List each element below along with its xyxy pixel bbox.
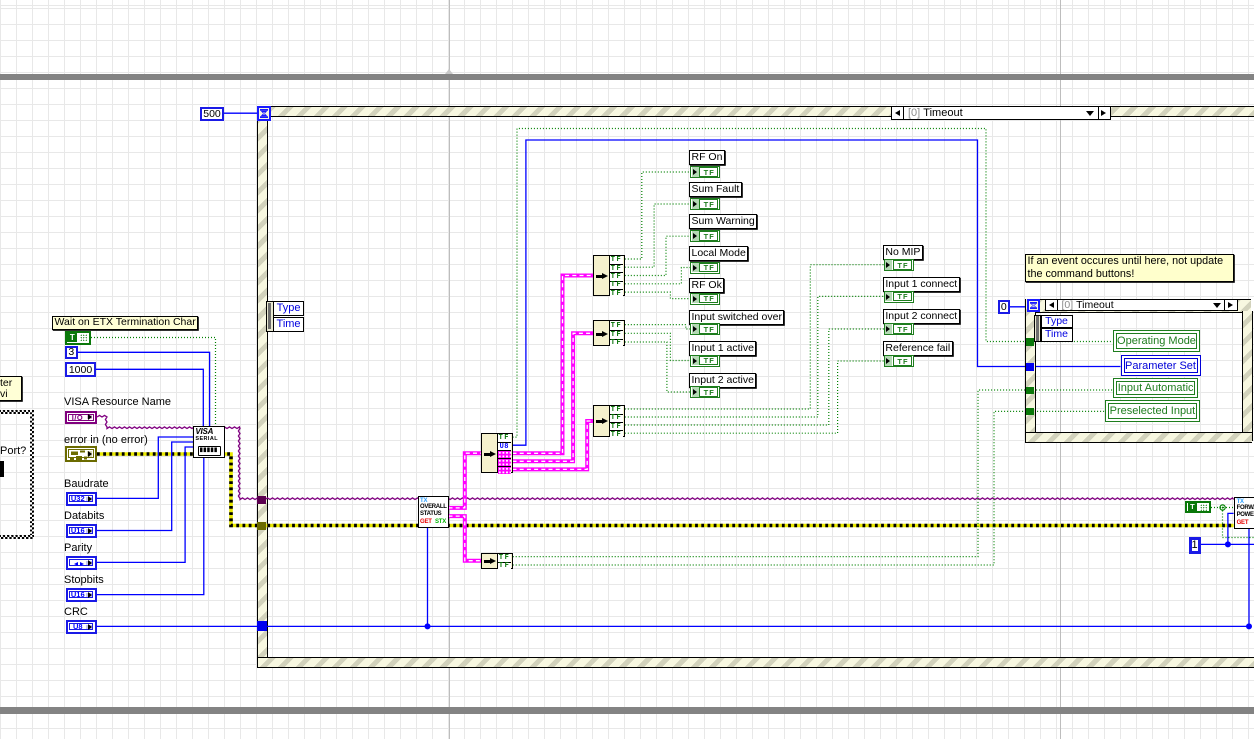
label Local Mode <box>689 246 748 261</box>
wire green Local Mode <box>625 268 690 284</box>
wire blue 500 to timeout <box>224 112 257 114</box>
junction dot 1-const <box>1225 541 1231 547</box>
splitter bar bottom <box>0 707 1254 714</box>
label CRC <box>64 606 144 618</box>
event structure outer: top border <box>257 106 1254 117</box>
button Parameter Set <box>1121 355 1201 376</box>
event structure outer: bottom border <box>257 657 1254 668</box>
inner event selector [0] Timeout <box>1045 299 1238 311</box>
boolean indicator Sum Warning <box>690 230 720 242</box>
wire green small unbundle to Preselected Input <box>513 411 1105 565</box>
wire green Input 1 active <box>625 333 690 360</box>
wire pink cluster to block2 <box>513 333 594 461</box>
clipped free label ter/vi <box>0 376 22 401</box>
unbundle by name block2 (3 booleans) <box>593 320 625 346</box>
boolean indicator RF On <box>690 166 720 178</box>
wire pink cluster to block1 <box>513 276 594 454</box>
label error in (no error) <box>64 434 184 446</box>
label Stopbits <box>64 574 144 586</box>
wire blue stopbits <box>96 457 204 595</box>
wire blue from TX overall status <box>427 528 429 627</box>
wire blue CRC long <box>96 625 1249 627</box>
label Input 1 active <box>689 341 756 356</box>
wire pink cluster to block3 <box>513 421 594 469</box>
wire blue parity <box>96 447 193 562</box>
subVI TX OVERALL STATUS GET <box>418 496 449 528</box>
wire error cluster <box>97 454 1234 526</box>
wire green T const to forward power <box>1211 508 1254 538</box>
button Operating Mode <box>1113 330 1201 352</box>
wire green Sum Warning <box>625 236 690 275</box>
wire green Input 1 connect <box>625 296 884 417</box>
wire green Input switched over <box>625 325 690 329</box>
boolean indicator Sum Fault <box>690 198 720 210</box>
label No MIP <box>883 245 923 260</box>
inner tunnel blue <box>1026 363 1035 371</box>
dark grid line v2 <box>1060 0 1061 739</box>
label Parity <box>64 542 144 554</box>
numeric constant 3 <box>65 346 78 359</box>
wire blue 1 const <box>1201 513 1254 544</box>
boolean indicator Input 1 active <box>690 355 720 367</box>
wire blue databits <box>96 442 193 531</box>
button Input Automatic <box>1113 378 1198 397</box>
inner tunnel green 2 <box>1026 387 1034 394</box>
label Databits <box>64 510 144 522</box>
numeric control U16 Databits <box>66 524 97 538</box>
wire pink TX status out2 <box>449 516 482 561</box>
label Sum Fault <box>689 182 742 197</box>
free label Wait on ETX Termination Char <box>52 316 198 330</box>
VISA resource control I/O <box>65 411 97 425</box>
junction dot right <box>1246 623 1252 629</box>
comment sticky note <box>1025 254 1234 282</box>
boolean indicator Input 1 connect <box>884 291 914 303</box>
junction dot CRC-status <box>425 623 431 629</box>
button Preselected Input <box>1105 400 1201 422</box>
numeric constant 1 <box>1189 537 1201 554</box>
numeric constant 500 <box>200 107 224 121</box>
numeric constant 1000 <box>65 362 96 377</box>
boolean indicator Input switched over <box>690 323 720 335</box>
wire blue right down <box>1248 529 1250 626</box>
timeout terminal hourglass <box>257 106 271 121</box>
boolean constant T <box>65 331 91 345</box>
boolean indicator RF Ok <box>690 293 720 305</box>
wire green unbundle TF to Operating Mode <box>513 129 1113 438</box>
unbundle by name block3 (4 booleans) <box>593 405 625 437</box>
inner event structure: left border <box>1025 299 1036 441</box>
splitter handle triangle <box>445 69 453 74</box>
label Input 2 active <box>689 373 756 388</box>
tunnel CRC (blue) <box>257 621 268 631</box>
unbundle by name block1 (5 booleans) <box>593 255 625 297</box>
boolean indicator Local Mode <box>690 262 720 274</box>
label RF On <box>689 150 725 165</box>
boolean indicator Input 2 active <box>690 386 720 398</box>
inner tunnel green 1 <box>1026 338 1034 346</box>
numeric control U16 Stopbits <box>66 588 97 602</box>
wire green T const to VISA <box>91 338 216 427</box>
tunnel VISA (maroon) <box>257 496 266 504</box>
label Sum Warning <box>689 214 757 229</box>
wire blue 0 const to inner timeout <box>1009 306 1028 308</box>
wire blue baudrate <box>96 437 193 498</box>
label Baudrate <box>64 478 144 490</box>
inner event structure: right border <box>1242 311 1253 441</box>
inner event structure: bottom border <box>1025 432 1252 443</box>
wire green small unbundle to Input Automatic <box>513 390 1113 557</box>
splitter bar top <box>0 74 1254 80</box>
inner timeout terminal hourglass <box>1027 299 1040 312</box>
error in cluster control <box>65 446 97 462</box>
subVI TX FORWARD POWER GET <box>1234 497 1254 529</box>
boolean constant T (forward power) <box>1185 501 1211 514</box>
inner event structure: top hatch <box>1025 299 1251 313</box>
numeric control U8 CRC <box>66 620 97 634</box>
numeric constant 0 <box>998 300 1010 314</box>
event selector [0] Timeout outer <box>891 106 1111 120</box>
clipped black icon bar <box>0 461 4 477</box>
enum control Parity <box>66 556 97 570</box>
event data node outer <box>266 301 274 332</box>
wire green Input 2 active <box>625 342 690 392</box>
unbundle main status cluster <box>481 433 513 473</box>
wire green No MIP <box>625 265 884 409</box>
label Input 2 connect <box>883 309 960 324</box>
wire green Reference fail <box>625 361 884 433</box>
label Input 1 connect <box>883 277 960 292</box>
inner event data node <box>1034 315 1041 343</box>
wire green RF Ok <box>625 292 690 299</box>
numeric control U32 Baudrate <box>66 492 97 506</box>
wire green RF On <box>625 172 690 259</box>
inner tunnel green 3 <box>1026 408 1034 415</box>
tunnel error (olive) <box>257 522 266 530</box>
boolean indicator Reference fail <box>884 355 914 367</box>
event structure outer: left border <box>257 106 268 666</box>
boolean indicator No MIP <box>884 259 914 271</box>
wire purple VISA resource <box>97 415 1234 499</box>
unbundle small (2 booleans) <box>481 553 512 570</box>
dark grid line v1 <box>449 0 450 739</box>
junction ring green <box>1220 505 1225 510</box>
label Input switched over <box>689 310 784 325</box>
wire green Sum Fault <box>625 204 690 267</box>
clipped while loop checkered border <box>0 410 34 414</box>
wire blue const1000 <box>96 369 203 426</box>
label VISA Resource Name <box>64 396 184 408</box>
wire blue unbundle U8 to Parameter Set <box>513 140 1121 445</box>
label RF Ok <box>689 278 724 293</box>
label Reference fail <box>883 341 953 356</box>
wire green Input 2 connect <box>625 329 884 425</box>
wire pink TX status out1 <box>449 453 482 508</box>
VISA Configure Serial Port icon <box>193 426 225 458</box>
clipped label Port? <box>0 445 40 456</box>
boolean indicator Input 2 connect <box>884 323 914 335</box>
wire blue const3 <box>78 352 210 426</box>
